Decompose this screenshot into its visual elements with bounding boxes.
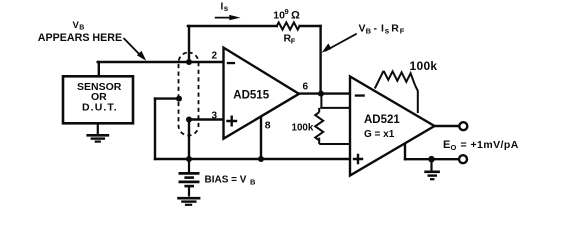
- annotation VB APPEARS HERE: [38, 20, 146, 61]
- label VB - IsRF with arrow: [322, 23, 405, 53]
- svg-text:F: F: [291, 36, 296, 45]
- svg-text:B: B: [250, 178, 256, 187]
- svg-text:R: R: [391, 23, 399, 35]
- label BIAS = VB: [205, 175, 257, 187]
- resistor RF zigzag: [277, 22, 300, 29]
- battery BIAS: [179, 159, 200, 197]
- op-amp U1 AD515: [212, 48, 309, 139]
- node dot rail pin8: [258, 156, 264, 162]
- ground under battery: [177, 198, 200, 205]
- label RF: [284, 32, 296, 45]
- wire guard drive vertical: [154, 99, 156, 159]
- svg-text:AD521: AD521: [364, 114, 400, 126]
- ground under sensor box: [86, 124, 109, 142]
- svg-text:I: I: [381, 23, 384, 35]
- svg-text:s: s: [385, 27, 390, 36]
- minus sign: [355, 94, 365, 96]
- label EO = +1mV/pA: [443, 139, 519, 152]
- label Is with arrow: [215, 2, 241, 21]
- svg-text:AD515: AD515: [233, 90, 269, 102]
- wire sensor top lead: [98, 62, 100, 76]
- svg-text:E: E: [443, 139, 450, 151]
- wire feedback right vertical: [319, 26, 321, 94]
- wire guard drive horizontal: [155, 97, 179, 99]
- node dot lower output ground: [428, 156, 435, 163]
- wire main input to pin 2: [98, 61, 224, 63]
- node dot pin3: [186, 117, 192, 123]
- svg-text:BIAS = V: BIAS = V: [205, 175, 247, 186]
- plus sign: [353, 154, 363, 164]
- svg-text:-: -: [374, 23, 378, 35]
- guard ring (dashed stadium): [179, 53, 199, 136]
- svg-text:s: s: [224, 4, 229, 13]
- svg-text:2: 2: [212, 51, 218, 62]
- wire AD515 output to AD521 minus input: [299, 92, 350, 94]
- svg-text:G = x1: G = x1: [364, 129, 395, 140]
- node dot AD515 output: [318, 91, 324, 97]
- svg-text:V: V: [359, 23, 366, 35]
- wire feedback left vertical: [188, 26, 190, 62]
- svg-text:100k: 100k: [410, 59, 438, 73]
- svg-text:B: B: [79, 25, 84, 32]
- wire AD521 output: [435, 125, 460, 127]
- label 10^9 ohm: [273, 7, 300, 22]
- wire feedback top left: [188, 25, 277, 27]
- svg-text:APPEARS HERE: APPEARS HERE: [38, 32, 122, 44]
- svg-text:8: 8: [265, 119, 271, 131]
- resistor RG 100k (left of AD521): [315, 94, 349, 144]
- resistor RS 100k (top of AD521): [375, 71, 418, 113]
- wire AD521 sense down: [404, 144, 406, 160]
- svg-text:9: 9: [285, 7, 289, 16]
- op-amp U2 AD521: [350, 77, 435, 176]
- node dot rail battery: [186, 156, 192, 162]
- wire sense to lower terminal: [405, 158, 459, 160]
- svg-text:D.U.T.: D.U.T.: [82, 102, 118, 114]
- ground at output: [424, 159, 440, 179]
- minus sign: [227, 62, 235, 64]
- output terminal lower: [459, 155, 467, 163]
- svg-text:= +1mV/pA: = +1mV/pA: [461, 139, 519, 151]
- wire feedback top right: [300, 25, 321, 27]
- svg-text:10: 10: [273, 10, 285, 22]
- svg-text:F: F: [400, 27, 405, 36]
- svg-text:6: 6: [303, 82, 309, 93]
- svg-text:3: 3: [212, 111, 218, 122]
- plus sign: [226, 116, 237, 127]
- svg-text:100k: 100k: [292, 123, 314, 134]
- wire pin 8 down: [260, 116, 262, 159]
- SENSOR / D.U.T. box: [63, 76, 133, 123]
- svg-text:O: O: [451, 143, 457, 152]
- node dot guard left: [176, 96, 182, 102]
- wire bottom rail: [155, 158, 350, 160]
- svg-text:B: B: [366, 27, 372, 36]
- wire pin3 node down to rail: [188, 120, 190, 160]
- node dot pin2/guard top: [186, 59, 192, 65]
- wire pin 3 input: [189, 118, 224, 120]
- svg-text:Ω: Ω: [291, 10, 300, 22]
- output terminal upper: [459, 122, 467, 130]
